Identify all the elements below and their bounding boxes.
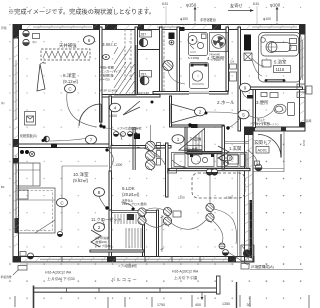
wire closet area	[99, 196, 107, 225]
closet11 hatch shelves	[115, 214, 141, 248]
LDK label	[122, 186, 147, 206]
svg-text:3.W.I.C: 3.W.I.C	[102, 42, 118, 47]
LDK bottom wall devices	[219, 243, 229, 256]
svg-text:2: 2	[199, 109, 202, 114]
dimension numbers	[157, 302, 251, 307]
circled 6	[84, 36, 95, 45]
bedroom10 wall device	[57, 231, 62, 236]
svg-text:化粧鏡板(3): 化粧鏡板(3)	[20, 133, 37, 138]
svg-text:戸境壁構成(A): 戸境壁構成(A)	[251, 264, 274, 269]
interior wall WIC left	[100, 27, 103, 122]
unit bath	[259, 33, 302, 83]
corner meter box	[241, 245, 254, 261]
svg-text:上:片引 下:引違: 上:片引 下:引違	[174, 275, 198, 280]
svg-text:W=750: W=750	[100, 78, 110, 82]
toilet fixture	[274, 103, 295, 116]
kitchen counter	[172, 153, 248, 169]
tomoyose arrow	[228, 2, 254, 12]
svg-text:H16-A(33C)2 WA: H16-A(33C)2 WA	[45, 271, 72, 275]
svg-text:戸境: 戸境	[1, 26, 7, 30]
svg-text:30: 30	[247, 303, 251, 307]
storage7 top wall	[170, 125, 224, 127]
svg-text:1: 1	[177, 137, 180, 142]
svg-text:CA: CA	[230, 60, 234, 64]
svg-text:友寄せ: 友寄せ	[230, 2, 243, 9]
svg-text:6: 6	[88, 38, 91, 43]
phi150 label	[180, 3, 197, 26]
LDK small box label	[173, 211, 181, 217]
svg-text:400: 400	[195, 303, 201, 307]
wire bedroom8 loop	[67, 93, 97, 127]
WIC dashed risers	[125, 29, 131, 80]
range hood circles	[206, 169, 217, 175]
svg-text:(パイプ径25): (パイプ径25)	[95, 244, 111, 248]
interior wall WIC right	[135, 27, 138, 96]
interior wall shaft right	[160, 27, 163, 93]
svg-text:8: 8	[98, 190, 101, 195]
bedroom8 corner diagonals	[37, 64, 45, 91]
circled 7	[86, 135, 97, 144]
WIC bottom wall	[102, 95, 160, 98]
bath electric box	[244, 53, 252, 61]
room8 label	[63, 72, 79, 84]
shaft divider	[138, 49, 161, 51]
svg-text:W-3P 1(1480): W-3P 1(1480)	[100, 89, 117, 93]
LDK top wall at kitchen	[169, 169, 250, 171]
dining table dashed	[192, 173, 245, 198]
svg-text:φ150: φ150	[186, 3, 197, 8]
svg-text:上:片引A6 下:引33: 上:片引A6 下:引33	[47, 276, 75, 281]
window spec label right	[172, 270, 199, 281]
svg-text:287: 287	[141, 33, 147, 37]
washroom right tiny boxes	[230, 60, 237, 82]
svg-text:6.LDK: 6.LDK	[122, 186, 136, 191]
svg-text:5: 5	[242, 112, 245, 117]
svg-text:バルコニー: バルコニー	[111, 277, 138, 282]
entry wall with door opening	[249, 127, 305, 131]
svg-text:(9.12㎡): (9.12㎡)	[63, 78, 79, 84]
exterior top wall	[13, 25, 305, 30]
room10 label	[73, 171, 89, 183]
interior wall washroom left	[177, 27, 180, 93]
bedroom8 door	[79, 104, 103, 128]
outside dots darker	[6, 135, 315, 308]
porch step lines	[253, 131, 284, 172]
left edge notes	[1, 26, 12, 279]
junction dots	[42, 101, 230, 211]
wire washroom	[168, 70, 248, 98]
svg-text:5.4:1800: 5.4:1800	[188, 56, 199, 60]
svg-text:400×0.18: 400×0.18	[138, 91, 149, 95]
WIC ladder hatch	[114, 45, 136, 95]
closet11 top track	[111, 211, 157, 213]
toilet notes	[257, 118, 278, 126]
svg-text:半遮音壁: 半遮音壁	[1, 275, 12, 279]
phi100 label	[263, 3, 281, 26]
washing machine pan	[210, 33, 229, 52]
mirror cabinet box	[228, 155, 239, 164]
washroom PS circle	[163, 61, 173, 72]
wire LDK long loops	[121, 175, 210, 229]
svg-text:中段+枕棚: 中段+枕棚	[184, 146, 198, 151]
svg-text:8.51: 8.51	[162, 2, 168, 6]
svg-text:PB9.5+クロス(量産): PB9.5+クロス(量産)	[122, 202, 147, 206]
hall-kitchen wall stub	[133, 127, 135, 170]
svg-text:10.洋室: 10.洋室	[73, 171, 89, 178]
window spec label left	[45, 271, 75, 282]
dimension ticks	[15, 282, 309, 308]
svg-text:(9.62㎡): (9.62㎡)	[73, 177, 89, 183]
svg-text:1.玄関: 1.玄関	[229, 145, 242, 152]
svg-text:※完成イメージです。完成後の現状渡しとなります。: ※完成イメージです。完成後の現状渡しとなります。	[8, 8, 155, 16]
svg-text:2.ホール: 2.ホール	[217, 100, 235, 105]
svg-text:(4): (4)	[1, 101, 4, 105]
closet11 bottom wall	[90, 250, 144, 252]
wire entrance	[248, 150, 257, 164]
circled 1	[172, 135, 184, 144]
svg-text:5.浴室: 5.浴室	[274, 59, 287, 66]
WIC small ellipse symbol	[103, 55, 110, 60]
svg-text:H16-A(33C)2 WA: H16-A(33C)2 WA	[172, 270, 199, 274]
distribution board	[134, 134, 140, 140]
svg-text:天井補強: 天井補強	[59, 42, 77, 49]
bottom-left wall device	[13, 252, 34, 276]
toilet wall accessories	[247, 93, 278, 99]
exterior right wall upper	[300, 25, 306, 132]
svg-text:手洗化粧台: 手洗化粧台	[200, 17, 216, 22]
svg-text:3.便所: 3.便所	[256, 99, 269, 106]
wire LDK to wall devices	[213, 209, 237, 244]
wall hatch ticks	[13, 25, 305, 263]
wire hall to toilet	[206, 112, 240, 128]
kitchen small label box	[168, 169, 177, 174]
bedroom10 desk sketch	[16, 163, 40, 186]
ceiling brace hatched strip bedroom8	[41, 49, 90, 65]
genkan kamachi line	[225, 142, 249, 144]
svg-text:φ100: φ100	[263, 17, 271, 21]
svg-text:1250: 1250	[226, 196, 233, 200]
closet11 door zigzag	[91, 230, 101, 247]
svg-text:φ100: φ100	[270, 3, 281, 8]
bedroom8 top-left device circles	[23, 30, 40, 45]
hall small wall	[170, 96, 172, 127]
svg-text:玄関ドア: 玄関ドア	[254, 139, 272, 146]
sliding door bedroom10-LDK	[109, 148, 111, 171]
closet11 corridor wall	[157, 210, 159, 257]
circled 2 closet	[94, 223, 105, 232]
toilet left wall	[253, 90, 256, 128]
circled 9	[240, 83, 251, 92]
washroom vanity	[180, 27, 185, 31]
exterior right wall lower	[245, 127, 254, 262]
LDK top wall	[111, 146, 171, 149]
boundary wall label	[228, 252, 303, 270]
genkan zigzag mirror	[218, 146, 229, 163]
closet11 left wall	[109, 210, 112, 257]
wire ceiling C drop	[62, 166, 108, 231]
storage tiny spec boxes	[187, 146, 202, 155]
washroom bottom wall	[153, 92, 228, 95]
circled 4	[110, 103, 121, 112]
svg-text:AD91: AD91	[258, 149, 268, 153]
kitchen left wall	[166, 143, 169, 197]
svg-text:740×640: 740×640	[209, 53, 220, 57]
interior wall washroom right	[226, 27, 229, 91]
wire bath	[252, 58, 264, 76]
svg-text:7: 7	[90, 137, 93, 142]
svg-text:1116: 1116	[276, 67, 285, 72]
shaft label boxes	[139, 31, 151, 85]
svg-text:4: 4	[114, 105, 117, 110]
LDK speaker circle pairs	[138, 208, 147, 226]
entrance door	[258, 134, 281, 158]
genkan door label	[254, 139, 272, 153]
svg-text:ドアH図面参照: ドアH図面参照	[118, 264, 137, 268]
svg-text:2: 2	[98, 225, 101, 230]
bedroom10 right wall lower	[109, 171, 112, 212]
exterior left wall	[13, 25, 19, 263]
circled C bedroom8	[65, 84, 76, 93]
svg-text:11.クローゼット: 11.クローゼット	[91, 216, 122, 223]
svg-text:8.51: 8.51	[253, 2, 259, 6]
corridor dark device	[169, 33, 175, 45]
svg-text:(20.81㎡): (20.81㎡)	[122, 191, 140, 197]
MAIN-WALLS	[13, 25, 305, 263]
WIC shelf text	[100, 65, 121, 82]
interior wall bath left	[238, 27, 241, 131]
circled 2 hall	[195, 107, 206, 116]
svg-text:1021: 1021	[302, 140, 306, 147]
balcony railing	[34, 276, 221, 308]
vertical dim line LDK	[161, 215, 164, 252]
svg-text:<500: <500	[109, 114, 117, 118]
svg-text:1750: 1750	[157, 303, 165, 307]
kitchen PS circles	[146, 125, 161, 171]
wire bedroom8 to hall	[45, 138, 88, 141]
svg-text:ドアH寸法図面参照: ドアH寸法図面参照	[117, 127, 142, 131]
bedroom divider wall	[19, 144, 112, 148]
svg-text:8.洋室: 8.洋室	[63, 72, 76, 79]
wire kitchen	[137, 147, 190, 168]
svg-text:基準: 基準	[306, 119, 312, 123]
bedroom10 bed sketch	[16, 188, 55, 233]
svg-text:B2: B2	[1, 185, 5, 189]
bath bottom wall	[241, 87, 303, 90]
closet11 notes	[95, 236, 111, 248]
svg-text:9: 9	[244, 85, 247, 90]
FIXTURES	[13, 27, 312, 275]
svg-text:(K): (K)	[33, 40, 37, 44]
bedroom8 intercom panel	[25, 112, 36, 126]
storage7 bottom wall	[186, 152, 224, 154]
circled 8	[94, 188, 105, 197]
washroom lower unit	[190, 63, 209, 89]
WIC door wedge	[123, 101, 140, 115]
svg-text:1350: 1350	[222, 302, 230, 306]
bath label	[274, 59, 291, 73]
circled C bedroom10	[57, 198, 68, 207]
svg-text:ドアセンサ照明: ドアセンサ照明	[250, 122, 270, 126]
right edge small boxes	[297, 84, 312, 98]
svg-text:7.収納: 7.収納	[190, 136, 202, 143]
hall outlet row	[114, 132, 138, 137]
porch meter device	[255, 161, 262, 171]
bath shaft black bar	[244, 35, 251, 51]
exterior bottom wall	[13, 257, 254, 263]
hall left wall upper	[109, 96, 112, 148]
circled 5	[238, 110, 249, 119]
wire toilet	[246, 108, 274, 118]
closet11 right wall	[143, 210, 145, 257]
wire hall curves	[104, 128, 122, 168]
BOTTOM	[15, 264, 309, 308]
svg-text:→1300: →1300	[112, 163, 123, 167]
boundary wall lining	[238, 171, 240, 256]
svg-text:φ100: φ100	[180, 17, 188, 21]
storage7 right wall	[222, 126, 225, 169]
storage7 bifold wedges	[171, 104, 205, 152]
corridor dashed riser	[163, 27, 165, 91]
bedroom10 outlets	[20, 150, 35, 157]
storage7 left wall	[185, 126, 187, 153]
svg-text:1250: 1250	[178, 196, 185, 200]
